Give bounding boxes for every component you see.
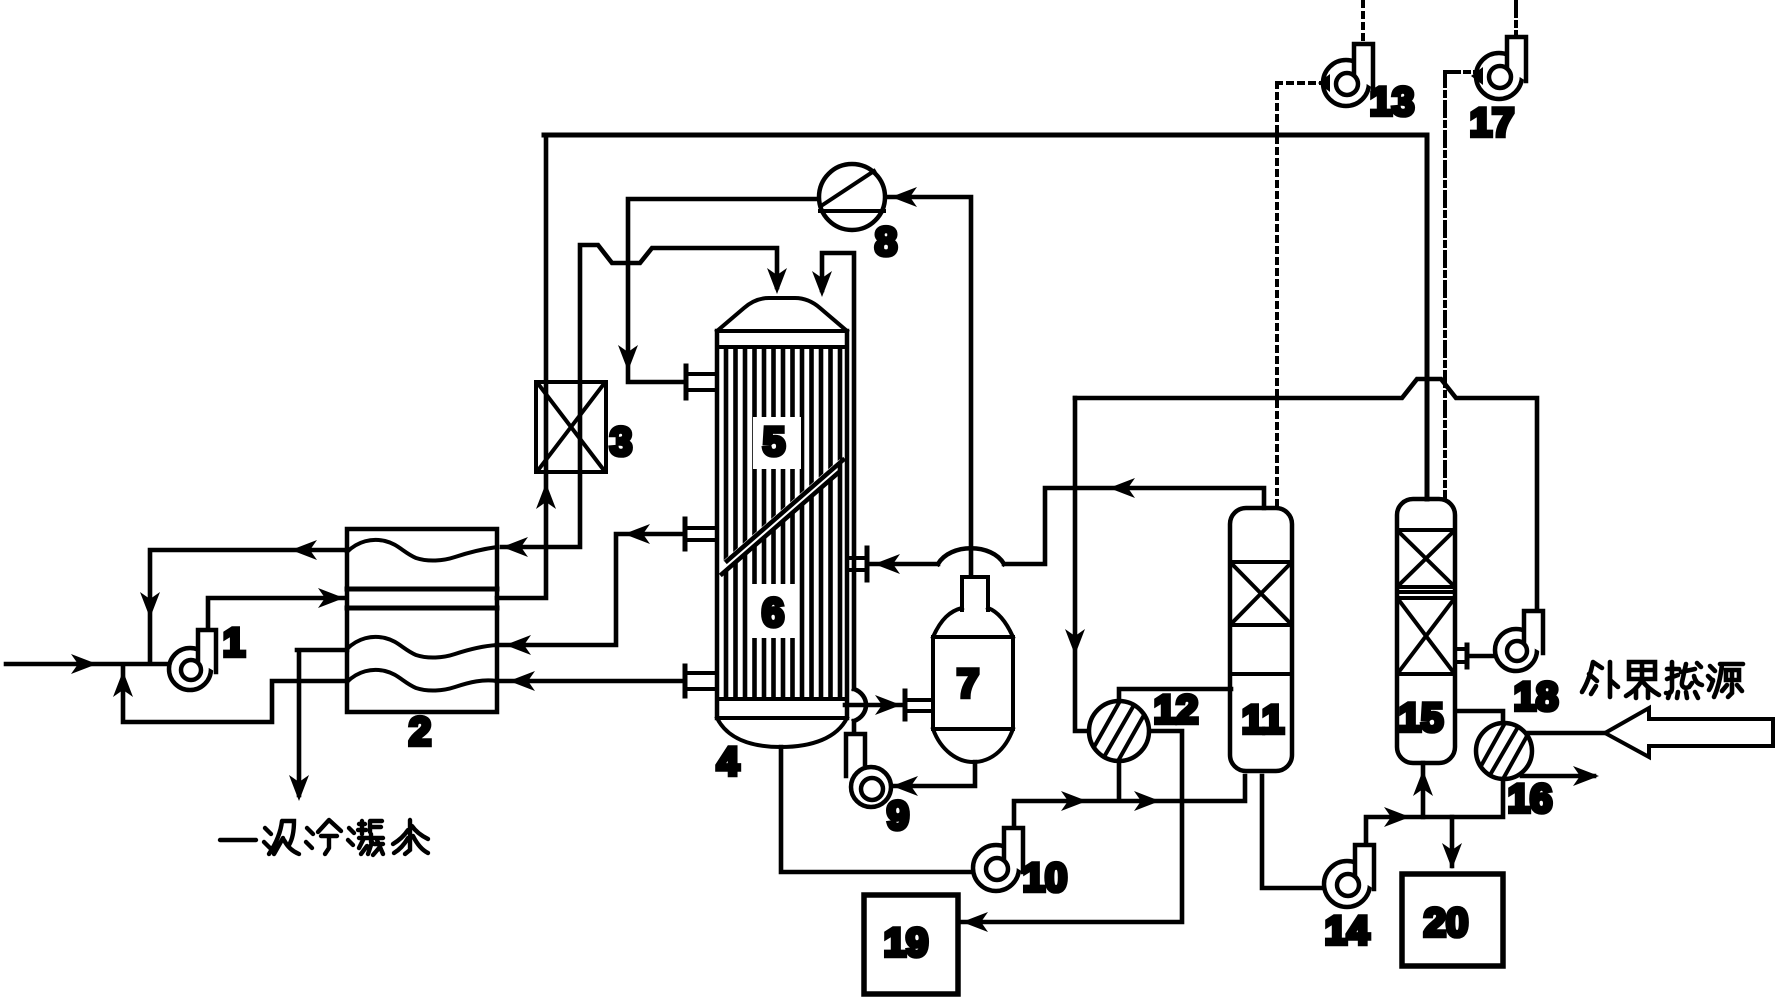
evaporator tube sheet top [717, 331, 847, 347]
arrow: west on column11 overhead line [1109, 478, 1135, 498]
arrow: down into evaporator dome center [767, 268, 787, 294]
separator vessel 7 [905, 577, 1013, 762]
pump 13 [1318, 44, 1373, 106]
arrow: HX2 top channel outlet west [291, 540, 317, 560]
wire: external heat line into compressor 16 [1524, 731, 1605, 736]
wire: column 15 side nozzle to pump 18 suction [1470, 654, 1496, 659]
HX2 channel-3 wavy coil [347, 670, 497, 691]
dash-dot line: pump 17 riser [1514, 2, 1518, 36]
evaporator bottom band [717, 699, 847, 718]
arrow: up join feed line [113, 671, 133, 697]
wire: HX2 band outlet up through heat exchanger 3, top main line, down to column 15 top [497, 137, 546, 598]
pump 14 [1324, 845, 1374, 907]
evaporator bottom dome [717, 718, 847, 747]
dotted instrument line: pump 13 riser [1361, 2, 1365, 43]
HX2 channel-2 wavy coil [347, 637, 497, 658]
HX2 middle band lines [347, 589, 497, 608]
wire: evaporator mid-left nozzle west and down into HX2 channel 2 [497, 534, 682, 645]
arrow: west into compressor 8 [891, 187, 917, 207]
wire: pump 14 discharge east to compressor 16 bottom [1366, 780, 1503, 846]
flange: evaporator lower-left nozzle [687, 673, 717, 689]
wire: HX2 channel 3 west outlet looping down to feed line [123, 668, 347, 722]
pump 17 [1471, 37, 1526, 99]
heat exchanger 3 box with X [536, 382, 606, 472]
pump 18 [1495, 611, 1543, 671]
wire: raw feed inlet line [6, 662, 166, 667]
wire: drop from pump 14 header into box 20 [1450, 817, 1455, 866]
arrow: down toward heat exchanger 12 [1065, 629, 1085, 655]
arrow: west into pump 9 [892, 776, 918, 796]
svg-text:4: 4 [717, 740, 740, 784]
svg-text:11: 11 [1242, 698, 1284, 742]
svg-text:19: 19 [884, 921, 929, 965]
arrow: west into evaporator right nozzle [874, 554, 900, 574]
svg-text:9: 9 [887, 794, 909, 838]
pump 10 [973, 828, 1023, 891]
wire: pump 1 discharge to heat exchanger 2 middle band [208, 598, 344, 631]
text: 外界热源 (external heat source) drawn as strokes [1582, 662, 1743, 698]
arrow: up into column 15 bottom [1413, 770, 1433, 796]
wire: evaporator bottom band east to separator 7 left nozzle [845, 703, 901, 708]
svg-text:20: 20 [1424, 901, 1469, 945]
arrow: west into HX2 channel 3 [509, 671, 535, 691]
wire: compressor 16 outlet east [1522, 774, 1594, 779]
svg-text:12: 12 [1154, 688, 1199, 732]
arrow: up into heat exchanger 3 [536, 483, 556, 509]
wire: heat exchanger 12 bottom drop to pump 10 discharge header [1117, 760, 1122, 800]
heat exchanger 12 (hatched circle) [1089, 701, 1149, 761]
HX2 top wavy coil [347, 540, 497, 561]
arrow: west into HX2 channel 2 [505, 635, 531, 655]
box 19 [864, 895, 958, 994]
arrow: down into evaporator dome right [812, 271, 832, 297]
wire: branch down into heat exchanger 12 left side [1075, 398, 1090, 731]
wire: compressor 8 suction from separator 7 top [888, 197, 971, 576]
arrow: pump 10 header east 1 [1061, 791, 1087, 811]
svg-text:14: 14 [1325, 909, 1370, 953]
flange: evaporator mid-left nozzle [687, 528, 717, 540]
wire: evaporator lower-left nozzle west into HX2 channel 3 [497, 679, 682, 684]
wire: column 11 bottoms down and east to pump 14 suction [1262, 776, 1326, 888]
text: 一次冷凝水 (primary condensate) drawn as strokes [220, 820, 428, 855]
arrow: west on evaporator mid nozzle line [624, 524, 650, 544]
flange: column 15 right nozzle [1455, 649, 1464, 662]
wire: riser from pump 14 header into column 15 bottom [1421, 763, 1426, 817]
dash-dot line: pump 17 to column 15 top [1445, 72, 1476, 497]
pump 1 [169, 630, 216, 690]
evaporator label-5 clearing [753, 417, 801, 469]
flange: evaporator upper-left nozzle [688, 374, 717, 390]
arrow: compressor 16 outlet east [1573, 766, 1599, 786]
wire: heat exchanger 3 second pass down and west into HX2 top channel [502, 245, 777, 547]
arrow: down into box 20 [1442, 843, 1462, 869]
svg-text:2: 2 [409, 710, 431, 754]
wire: evaporator bottom outlet to pump 10 suction [781, 747, 975, 872]
box 20 [1402, 874, 1503, 966]
compressor 8 [819, 164, 885, 230]
arrow: pump 14 discharge east [1384, 807, 1410, 827]
arrow: pump 10 header east 2 [1134, 791, 1160, 811]
arrow: west into box 19 [962, 912, 988, 932]
wire: line y397 from junction to pump 18, with bridge hop over column 15 risers [1075, 379, 1537, 612]
external heat source hollow arrow [1605, 708, 1773, 757]
arrow: east into separator 7 [875, 695, 901, 715]
column 11 (rectifier) [1230, 508, 1292, 771]
svg-text:16: 16 [1508, 777, 1553, 821]
evaporator tubes [726, 349, 840, 698]
svg-text:6: 6 [762, 591, 784, 635]
svg-text:1: 1 [223, 621, 245, 665]
dotted instrument line: pump 13 to column 11 top [1277, 83, 1323, 505]
wire: column 15 lower outlet to compressor 16 top [1456, 711, 1503, 724]
heat exchanger 16 (hatched circle) [1476, 723, 1532, 779]
evaporator 4/5/6 [685, 298, 867, 747]
wire: heat exchanger 12 right side down and west into box 19 [960, 731, 1182, 922]
evaporator dome [717, 298, 847, 331]
arrow: condensate drain down [289, 775, 309, 801]
arrow: down join feed line [140, 592, 160, 618]
wire: compressor 8 discharge down to evaporator upper-left nozzle [628, 199, 820, 382]
arrow: pump1 discharge into HX2 band [318, 588, 344, 608]
svg-text:18: 18 [1514, 675, 1559, 719]
svg-text:13: 13 [1370, 80, 1415, 124]
evaporator diagonal break band [719, 459, 840, 576]
wire: pump 9 discharge up along evaporator and into dome [822, 253, 866, 734]
arrow: compressor 8 discharge down [618, 345, 638, 371]
svg-text:5: 5 [763, 420, 785, 464]
wire: HX2 channel 2 west outlet, primary condensate drain [297, 650, 347, 795]
svg-text:17: 17 [1470, 101, 1515, 145]
svg-text:3: 3 [610, 420, 632, 464]
svg-text:15: 15 [1399, 696, 1444, 740]
svg-text:8: 8 [875, 220, 897, 264]
column 15 (stripper) [1397, 499, 1467, 763]
svg-text:7: 7 [957, 662, 979, 706]
wire: heat exchanger 12 top to column 11 lower-left nozzle [1119, 689, 1231, 702]
wire: separator 7 bottom outlet west to pump 9 [894, 762, 975, 786]
wire: HX2 top channel west outlet down to feed line [150, 550, 347, 662]
wire: vapor from column 11 top to evaporator right-side nozzle [870, 488, 1264, 564]
flange: evaporator right nozzle [849, 558, 864, 570]
evaporator label-6 clearing [751, 584, 799, 638]
pump 9 (mirrored) [846, 734, 891, 807]
arrow: feed inlet east [71, 654, 97, 674]
heat exchanger 2 (preheater train) body [347, 529, 497, 712]
wire: pump 10 discharge east and up into column 11 bottom [1014, 776, 1245, 832]
arrow: west into HX2 top channel [502, 537, 528, 557]
evaporator shell walls [717, 331, 847, 718]
flange: separator 7 left nozzle [907, 700, 933, 711]
svg-text:10: 10 [1023, 856, 1068, 900]
